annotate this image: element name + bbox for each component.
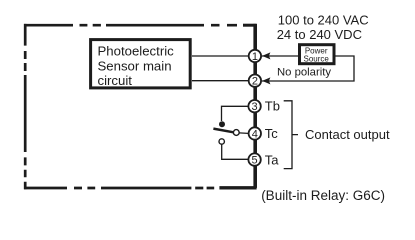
wire relay NO contact to terminal 5 — [222, 144, 248, 159]
svg-text:1: 1 — [252, 51, 258, 63]
contact output bracket — [284, 101, 298, 169]
wire sensor box to terminal 2 — [192, 80, 250, 82]
svg-text:24 to 240 VDC: 24 to 240 VDC — [277, 27, 362, 42]
svg-text:100 to 240 VAC: 100 to 240 VAC — [278, 12, 369, 27]
supply bus vertical wire — [253, 24, 257, 188]
svg-text:No polarity: No polarity — [277, 67, 331, 79]
relay NO contact circle — [219, 139, 224, 144]
svg-text:Tb: Tb — [265, 99, 280, 114]
relay NC contact dot — [219, 121, 225, 127]
arrowhead into terminal 1 — [262, 52, 270, 59]
enclosure dashed border top edge — [24, 24, 237, 27]
svg-text:Tc: Tc — [265, 126, 279, 141]
svg-text:(Built-in Relay: G6C): (Built-in Relay: G6C) — [261, 188, 385, 203]
svg-text:Sensor main: Sensor main — [98, 59, 172, 74]
svg-text:Contact output: Contact output — [305, 127, 390, 142]
svg-text:Photoelectric: Photoelectric — [98, 43, 175, 58]
svg-text:Ta: Ta — [265, 152, 280, 167]
svg-text:2: 2 — [252, 76, 258, 88]
relay moving contact arm — [213, 129, 233, 133]
power source wire upper (to terminal 1) — [262, 56, 354, 81]
wire terminal 3 to relay NC contact — [222, 106, 249, 121]
relay pole contact circle — [233, 130, 239, 136]
wire relay pole to terminal 4 — [239, 132, 248, 135]
arrowhead into terminal 2 — [262, 77, 270, 84]
bus top corner wire — [243, 24, 257, 27]
terminal 4 — [249, 127, 261, 140]
terminal 3 — [248, 100, 260, 113]
svg-text:Source: Source — [304, 54, 330, 63]
terminal 5 — [248, 153, 260, 166]
terminal 2 — [249, 75, 261, 88]
svg-text:4: 4 — [252, 129, 258, 141]
enclosure dashed border bottom edge — [24, 187, 214, 190]
svg-text:3: 3 — [252, 101, 258, 113]
terminal 1 — [249, 50, 261, 63]
Photoelectric sensor main circuit box — [91, 40, 191, 89]
power source box — [300, 45, 335, 64]
bus bottom corner wire — [219, 186, 256, 189]
svg-text:circuit: circuit — [98, 73, 133, 88]
enclosure dashed border left edge — [24, 24, 27, 189]
wire sensor box to terminal 1 — [192, 55, 250, 57]
svg-text:5: 5 — [252, 155, 258, 167]
